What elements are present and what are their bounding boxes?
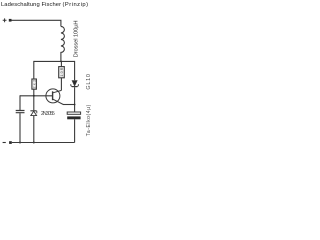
- svg-text:Ladeschaltung Fischer: Ladeschaltung Fischer: [1, 2, 61, 8]
- resistor R1: [32, 79, 37, 89]
- capacitor C1: [16, 111, 25, 113]
- wire top rail: [12, 20, 61, 26]
- wire D2 to bottom rail: [33, 116, 35, 143]
- inductor L1 Drossel 100uH: [61, 26, 65, 61]
- transistor Q1: [46, 89, 60, 103]
- diode D1 GL10: [72, 81, 77, 86]
- wire diode drop: [74, 61, 76, 80]
- wire R1 to base line: [33, 89, 35, 96]
- wire collector: [60, 78, 62, 91]
- wire C1 to bottom rail: [19, 113, 21, 142]
- wire mid rail node: [34, 60, 75, 62]
- capacitor C2 Ta-Elko plus plate: [67, 112, 80, 114]
- capacitor C2 minus plate: [67, 116, 80, 119]
- terminal +: [3, 18, 7, 22]
- wire emitter to right branch: [63, 104, 75, 106]
- node plus terminal dot: [9, 19, 12, 22]
- svg-text:Ta-Elko(4µ): Ta-Elko(4µ): [86, 104, 92, 136]
- wire zener drop: [33, 96, 35, 111]
- wire bottom rail: [12, 142, 75, 144]
- resistor R2 collector box: [60, 61, 62, 66]
- zener diode D2: [30, 110, 36, 112]
- svg-text:GL10: GL10: [86, 74, 92, 90]
- wire C2 to bottom rail: [74, 119, 76, 142]
- wire base feed drop: [33, 61, 35, 79]
- svg-text:10R: 10R: [60, 67, 64, 76]
- wire D1 to C2: [74, 87, 76, 112]
- svg-text:2N3055: 2N3055: [41, 111, 55, 117]
- node minus terminal dot: [9, 141, 12, 144]
- wire base line: [20, 95, 53, 97]
- node junction dots: [19, 61, 76, 144]
- svg-text:Drossel 100µH: Drossel 100µH: [74, 20, 80, 57]
- svg-text:(Prinzip): (Prinzip): [63, 2, 89, 8]
- wire C1 drop: [19, 95, 21, 110]
- terminal minus: [3, 142, 6, 144]
- svg-text:2k2: 2k2: [33, 80, 37, 89]
